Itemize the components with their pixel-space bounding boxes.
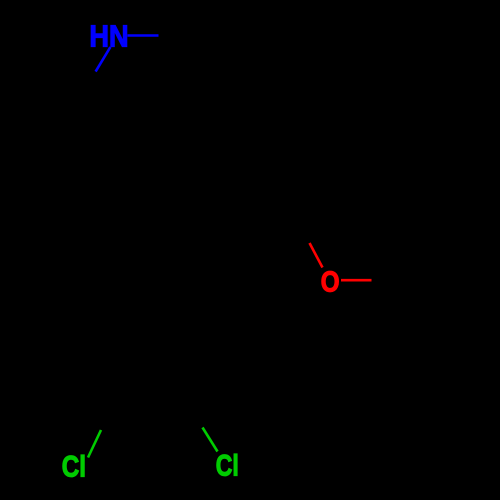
wire: bond O1-CH3 right (O half) (341, 279, 372, 282)
wire: bond N1-CH3 (N half) (128, 34, 159, 37)
svg-text:Cl: Cl (216, 450, 239, 483)
svg-text:O: O (321, 266, 340, 298)
wire: bond N1-C ring (N half) (96, 47, 111, 72)
wire: bond C-O1 upper (O half) (310, 243, 323, 268)
wire: bond Cl1-C ring (Cl half) (88, 430, 101, 458)
wire: bond Cl2-C ring (Cl half) (203, 428, 218, 452)
svg-text:Cl: Cl (62, 450, 86, 483)
